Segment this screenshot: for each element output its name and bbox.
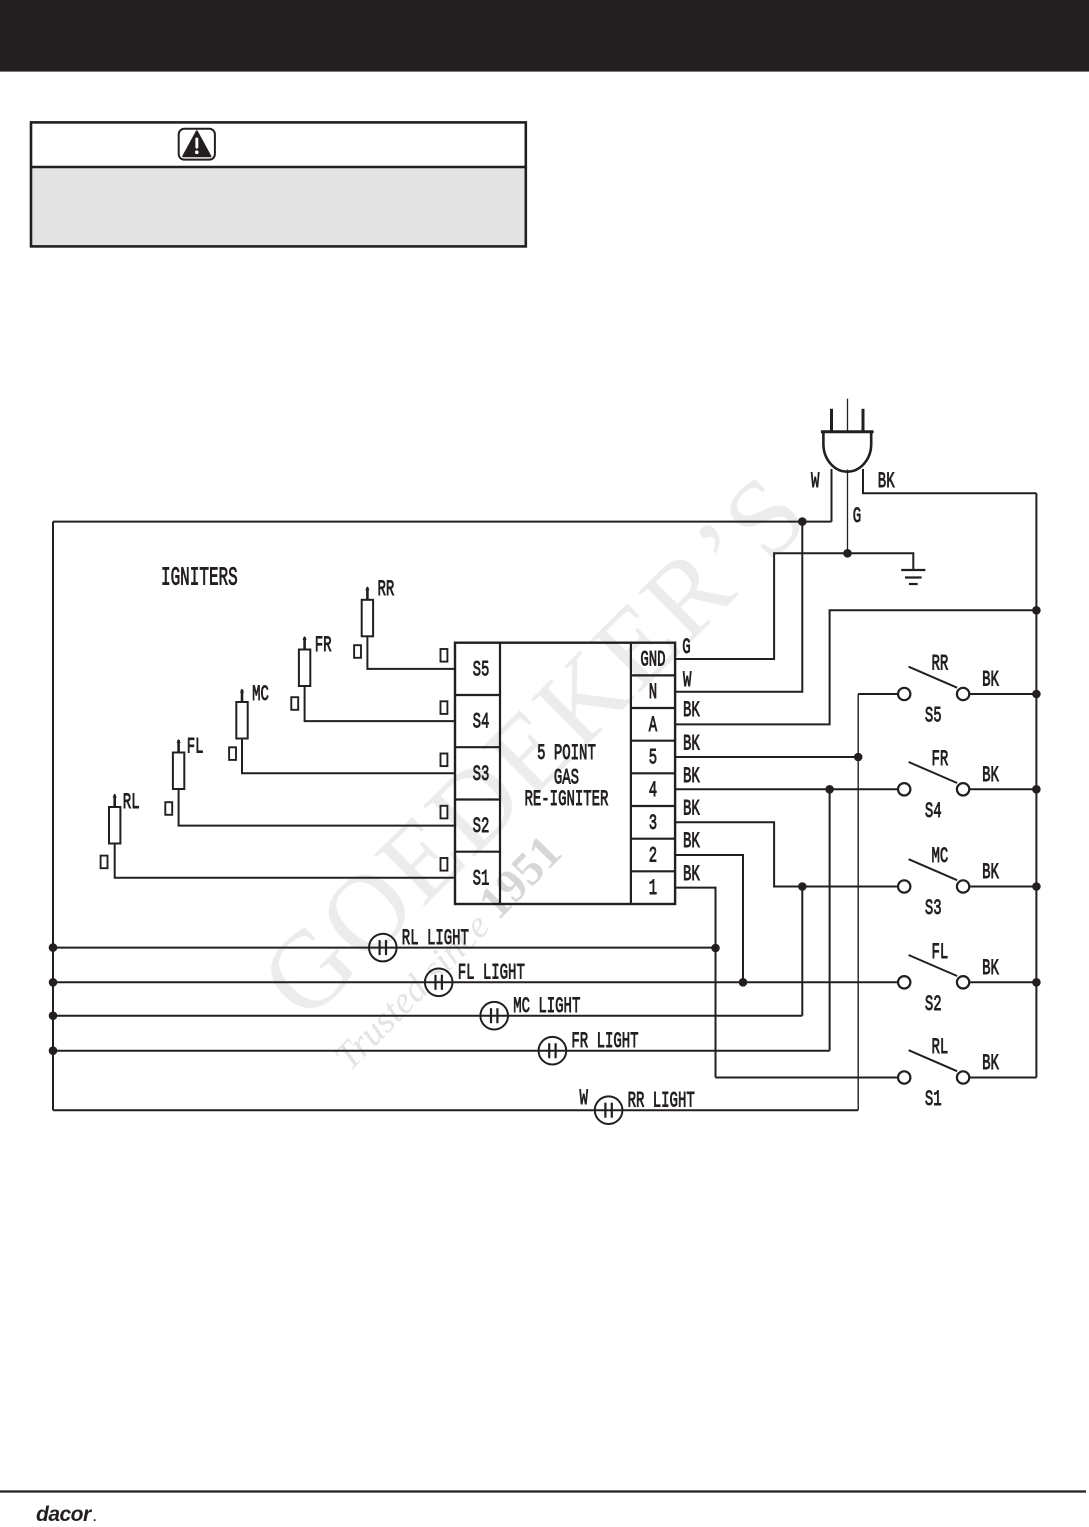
junction left rail FR	[49, 1046, 58, 1055]
header bar	[0, 0, 1089, 72]
wire S5 right BK	[970, 693, 1037, 695]
junction BK rail S2	[1032, 978, 1041, 987]
connector terminal S4	[441, 701, 448, 714]
wire S1 right BK	[970, 1077, 1037, 1079]
svg-text:RE-IGNITER: RE-IGNITER	[525, 786, 609, 812]
label 5 POINT GAS RE-IGNITER	[525, 740, 609, 812]
wire S3 right BK	[970, 886, 1037, 888]
switch S4 (FR)	[898, 762, 969, 796]
junction MC branch	[798, 882, 807, 891]
svg-text:N: N	[649, 679, 657, 705]
svg-text:RL: RL	[123, 789, 140, 815]
svg-text:G: G	[682, 634, 690, 660]
svg-text:MC: MC	[932, 843, 949, 869]
svg-text:BK: BK	[878, 468, 895, 494]
connector terminal S1	[441, 858, 448, 871]
warning box	[32, 168, 524, 245]
svg-text:GND: GND	[640, 646, 665, 672]
svg-text:3: 3	[649, 810, 657, 836]
svg-text:S5: S5	[473, 656, 490, 682]
svg-text:BK: BK	[982, 955, 999, 981]
junction BK rail S4	[1032, 785, 1041, 794]
svg-text:S4: S4	[473, 708, 490, 734]
wire FR light branch	[829, 789, 831, 1050]
wire terminal 2 drop	[675, 855, 743, 982]
igniter FL	[173, 739, 184, 789]
electrode RL	[101, 856, 108, 869]
wire S5 node vertical	[857, 694, 859, 1110]
switch S2 (FL)	[898, 955, 969, 989]
junction RL row	[711, 944, 720, 953]
wire MC light branch	[801, 887, 803, 1016]
svg-text:S4: S4	[925, 798, 942, 824]
wire bottom rail lamp to S5 node	[609, 1109, 859, 1111]
switch S5 (RR)	[898, 667, 969, 701]
svg-text:FR LIGHT: FR LIGHT	[571, 1028, 638, 1054]
svg-text:S1: S1	[473, 865, 490, 891]
svg-text:5: 5	[649, 744, 657, 770]
wire terminal 1 drop	[675, 888, 715, 1078]
igniter MC	[236, 689, 247, 739]
svg-text:RL: RL	[932, 1034, 949, 1060]
wire N terminal to W rail	[675, 522, 802, 692]
ground symbol	[901, 570, 925, 584]
wire W bottom rail	[53, 1109, 609, 1111]
svg-text:BK: BK	[683, 795, 700, 821]
wire BK from plug to BK rail	[863, 469, 1036, 493]
svg-text:S5: S5	[925, 702, 942, 728]
svg-text:.: .	[93, 1510, 96, 1522]
junction G	[843, 549, 852, 558]
watermark GOEDEKERS	[237, 450, 831, 1079]
junction left rail FL	[49, 978, 58, 987]
svg-text:RL LIGHT: RL LIGHT	[402, 925, 469, 951]
svg-text:IGNITERS: IGNITERS	[161, 564, 238, 593]
wire G run	[675, 553, 913, 659]
svg-text:W: W	[580, 1085, 589, 1111]
svg-text:2: 2	[649, 842, 657, 868]
lamp MC LIGHT	[480, 1002, 508, 1030]
svg-text:S3: S3	[925, 895, 942, 921]
lamp RR LIGHT	[595, 1096, 623, 1124]
svg-text:FR: FR	[932, 746, 949, 772]
wire W left rail	[52, 522, 54, 1111]
igniter RR	[362, 586, 373, 636]
junction BK rail A	[1032, 606, 1041, 615]
electrode RR	[354, 645, 361, 658]
junction left rail MC	[49, 1011, 58, 1020]
wire igniter RR to module	[367, 636, 455, 669]
svg-text:BK: BK	[683, 828, 700, 854]
wire W from plug to top rail	[831, 469, 833, 522]
svg-text:FL: FL	[187, 734, 204, 760]
wire MC light row	[53, 1015, 802, 1017]
connector terminal S2	[441, 806, 448, 819]
junction left rail RL	[49, 943, 58, 952]
svg-text:5 POINT: 5 POINT	[537, 740, 596, 766]
re-igniter module U1	[455, 643, 675, 904]
svg-text:RR: RR	[378, 576, 395, 602]
svg-text:BK: BK	[683, 763, 700, 789]
electrode FL	[165, 802, 172, 815]
wire igniter RL to module	[115, 844, 455, 878]
wire FL light row to switch S2	[53, 981, 898, 983]
connector terminal S3	[441, 754, 448, 767]
svg-text:BK: BK	[982, 859, 999, 885]
lamp FL LIGHT	[425, 969, 453, 997]
warning icon	[179, 129, 215, 160]
wire BK rail (right vertical)	[1035, 493, 1037, 1077]
wire igniter FR to module	[305, 686, 455, 721]
wire S1 row	[716, 1077, 899, 1079]
svg-text:A: A	[649, 712, 658, 738]
svg-text:S2: S2	[473, 813, 490, 839]
svg-text:BK: BK	[683, 861, 700, 887]
switch S1 (RL)	[898, 1050, 969, 1084]
electrode MC	[229, 747, 236, 760]
junction FL row	[739, 978, 748, 987]
wire S4 right BK	[970, 788, 1037, 790]
power plug P1	[821, 399, 874, 472]
wire terminal 5 to S5 node	[675, 756, 858, 758]
wire igniter FL to module	[179, 789, 455, 826]
wire S5 left	[858, 693, 898, 695]
lamp RL LIGHT	[369, 934, 397, 962]
svg-text:MC LIGHT: MC LIGHT	[513, 993, 580, 1019]
svg-text:RR LIGHT: RR LIGHT	[628, 1087, 695, 1113]
junction terminal 5	[854, 753, 863, 762]
svg-text:G: G	[853, 503, 861, 529]
svg-text:W: W	[811, 468, 820, 494]
wire G pin below plug	[847, 470, 849, 554]
svg-text:RR: RR	[932, 651, 949, 677]
svg-text:1: 1	[649, 875, 657, 901]
wire A terminal to BK rail	[675, 610, 1036, 724]
svg-text:FR: FR	[315, 632, 332, 658]
wire S2 right BK	[970, 981, 1037, 983]
igniter RL	[109, 794, 120, 844]
wire W top rail	[53, 521, 832, 523]
wire terminal 3 to switch S3	[675, 822, 898, 886]
footer rule	[0, 1490, 1086, 1492]
lamp FR LIGHT	[539, 1037, 567, 1065]
connector terminal S5	[441, 649, 448, 662]
svg-text:dacor: dacor	[36, 1503, 93, 1522]
svg-text:S2: S2	[925, 991, 942, 1017]
junction BK rail S3	[1032, 882, 1041, 891]
electrode FR	[291, 697, 298, 710]
svg-text:S3: S3	[473, 761, 490, 787]
svg-text:4: 4	[649, 777, 657, 803]
svg-text:BK: BK	[683, 730, 700, 756]
wire igniter MC to module	[242, 739, 455, 774]
wire RL light row	[53, 947, 716, 949]
svg-text:BK: BK	[982, 762, 999, 788]
igniter FR	[299, 636, 310, 686]
svg-text:BK: BK	[683, 697, 700, 723]
junction FR branch	[825, 785, 834, 794]
svg-text:BK: BK	[982, 1050, 999, 1076]
wire FR light row	[53, 1050, 830, 1052]
svg-text:BK: BK	[982, 667, 999, 693]
svg-text:FL LIGHT: FL LIGHT	[458, 959, 525, 985]
svg-text:FL: FL	[932, 939, 949, 965]
junction BK rail S5	[1032, 690, 1041, 699]
svg-text:S1: S1	[925, 1086, 942, 1112]
svg-text:MC: MC	[252, 681, 269, 707]
wire terminal 4 to switch S4	[675, 788, 898, 790]
switch S3 (MC)	[898, 859, 969, 893]
svg-text:W: W	[683, 667, 692, 693]
junction W rail	[798, 517, 807, 526]
